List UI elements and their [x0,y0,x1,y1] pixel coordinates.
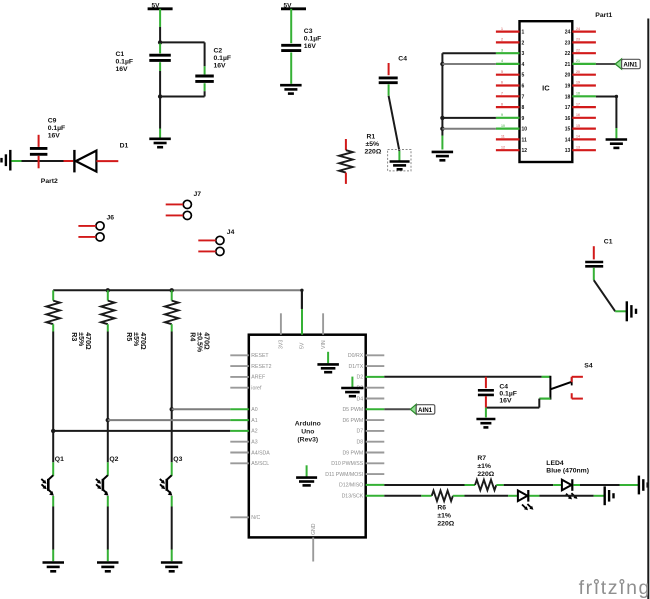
svg-text:6: 6 [501,81,503,85]
svg-text:8: 8 [501,102,503,106]
svg-text:(Rev3): (Rev3) [297,437,318,444]
svg-text:N/C: N/C [251,515,260,521]
svg-text:16V: 16V [499,398,512,405]
svg-text:11: 11 [501,135,505,139]
wire [465,495,509,497]
svg-text:23: 23 [565,40,571,46]
net label AIN1 [615,59,640,69]
ground [476,419,495,427]
svg-text:±1%: ±1% [437,512,451,519]
svg-text:2: 2 [522,40,525,46]
svg-text:RESET: RESET [251,353,269,359]
net label AIN1 [410,404,435,414]
wire [52,496,54,561]
svg-text:D11 PWM/MOSI: D11 PWM/MOSI [325,472,363,478]
resistor R1 [339,134,382,184]
selection box [388,150,411,171]
svg-text:C1: C1 [604,238,613,245]
capacitor C4 [379,56,408,96]
wire [159,97,161,138]
resistor R3 [46,290,91,350]
wire [160,91,205,96]
ground [317,352,339,372]
wire [596,95,618,139]
wire [172,408,231,410]
wire [504,484,554,486]
svg-text:Uno: Uno [301,429,314,436]
svg-text:±5%: ±5% [366,141,380,148]
svg-text:R4: R4 [189,332,196,341]
node junction [170,288,174,292]
svg-text:A2: A2 [251,429,257,435]
wire [171,496,173,561]
svg-text:0.1µF: 0.1µF [499,391,517,398]
frame edge [647,19,649,599]
svg-text:0.1µF: 0.1µF [304,36,322,43]
svg-text:R1: R1 [367,134,376,141]
svg-text:Part1: Part1 [595,12,612,19]
svg-text:5: 5 [501,70,503,74]
node junction [440,127,444,131]
wire [596,63,615,65]
svg-text:Blue (470nm): Blue (470nm) [546,468,589,475]
svg-text:R3: R3 [70,332,77,341]
svg-text:±5%: ±5% [132,332,139,347]
svg-text:D10 PWM/SS: D10 PWM/SS [331,461,364,467]
svg-text:Q2: Q2 [109,456,118,463]
svg-text:VIN: VIN [321,340,327,349]
pin VIN [321,313,327,349]
svg-text:D9 PWM: D9 PWM [342,450,363,456]
wire [53,430,230,432]
wire [171,332,173,410]
node junction [158,40,162,44]
svg-text:R7: R7 [477,455,486,462]
svg-text:0.1µF: 0.1µF [116,59,134,66]
svg-text:13: 13 [576,145,580,149]
svg-text:8: 8 [522,105,525,111]
svg-text:6: 6 [522,84,525,90]
wire [442,63,496,65]
ground [390,151,410,169]
ground [627,301,636,321]
svg-text:A3: A3 [251,440,257,446]
LED LED5 [508,490,539,510]
svg-text:17: 17 [576,102,580,106]
svg-text:D8: D8 [357,440,364,446]
wire [384,376,541,378]
svg-text:16V: 16V [116,66,129,73]
LED LED4 [546,460,589,500]
svg-text:S4: S4 [584,363,593,370]
svg-text:21: 21 [565,62,571,68]
svg-text:24: 24 [565,30,571,36]
svg-text:220Ω: 220Ω [437,520,454,527]
svg-text:AIN1: AIN1 [623,62,638,69]
wire [107,332,109,421]
svg-text:1: 1 [501,27,503,31]
node junction [440,116,444,120]
ground [606,140,628,148]
svg-text:5V: 5V [300,342,306,349]
IC U1 body [520,12,613,162]
wire [389,96,400,151]
svg-text:IC: IC [542,84,550,93]
node junction [51,429,55,433]
wire [486,399,539,408]
svg-text:16: 16 [565,116,571,122]
svg-text:14: 14 [576,135,580,139]
svg-text:LED4: LED4 [546,460,564,467]
svg-text:R5: R5 [125,332,132,341]
svg-text:A0: A0 [251,407,257,413]
Arduino title [295,421,321,444]
svg-text:7: 7 [501,92,503,96]
resistor R6 [421,491,464,528]
svg-text:frıtzıng: frıtzıng [579,577,650,599]
wire [580,484,639,486]
svg-text:22: 22 [576,48,580,52]
wire [159,9,161,43]
svg-text:24: 24 [576,27,580,31]
svg-text:C3: C3 [304,28,313,35]
svg-text:C4: C4 [398,56,407,63]
svg-text:J4: J4 [227,229,235,236]
capacitor C2 [195,47,231,91]
svg-text:D2: D2 [357,375,364,381]
Arduino right pins [325,353,384,499]
svg-text:C9: C9 [48,117,57,124]
svg-text:470Ω: 470Ω [139,332,146,350]
svg-text:16: 16 [576,113,580,117]
svg-text:C1: C1 [116,51,125,58]
svg-text:RESET2: RESET2 [251,364,271,370]
svg-text:4: 4 [522,62,525,68]
diode D1 [64,142,129,172]
pin GND [311,523,317,561]
connector J4 [198,229,234,255]
svg-text:D12/MISO: D12/MISO [339,483,363,489]
svg-text:18: 18 [576,92,580,96]
ground [43,563,65,572]
svg-text:5V: 5V [284,3,293,10]
svg-text:D1/TX: D1/TX [348,364,363,370]
svg-text:D4: D4 [357,396,364,402]
svg-text:10: 10 [522,127,528,133]
svg-text:D5 PWM: D5 PWM [342,407,363,413]
svg-text:10: 10 [501,124,505,128]
svg-text:C2: C2 [214,47,223,54]
transistor Q3 [160,456,183,496]
svg-text:D0/RX: D0/RX [348,353,364,359]
watermark fritzing [579,577,650,599]
svg-text:±1%: ±1% [477,463,491,470]
ground [605,486,614,505]
svg-text:AREF: AREF [251,375,265,381]
ground Part2 [2,150,59,185]
pin 3V3 [279,313,285,349]
svg-text:12: 12 [522,148,528,154]
wire [171,409,173,476]
ground [97,563,119,572]
wire [160,42,205,66]
svg-text:15: 15 [576,124,580,128]
svg-text:220Ω: 220Ω [365,149,382,156]
svg-text:2: 2 [501,38,503,42]
svg-text:17: 17 [565,105,571,111]
transistor Q1 [41,456,64,496]
svg-text:GND: GND [311,523,317,535]
svg-text:5: 5 [522,73,525,79]
svg-text:18: 18 [565,94,571,100]
svg-text:12: 12 [501,145,505,149]
wire [384,495,421,497]
connector J7 [166,191,202,219]
IC U1 pins [496,27,596,154]
svg-text:5V: 5V [152,3,161,10]
node junction [170,407,174,411]
wire [442,128,496,130]
resistor R5 [101,290,146,350]
svg-text:J6: J6 [107,214,115,221]
power 5V supply P2 [281,3,306,10]
wire [485,408,487,418]
svg-text:470Ω: 470Ω [84,332,91,350]
wire bendpoint [300,289,303,309]
svg-text:23: 23 [576,38,580,42]
svg-text:D1: D1 [120,142,129,149]
wire [52,332,54,431]
svg-text:15: 15 [565,127,571,133]
wire [442,52,496,54]
capacitor C4 [478,377,517,408]
svg-text:R6: R6 [437,504,446,511]
svg-text:22: 22 [565,51,571,57]
ground [149,139,171,147]
svg-text:14: 14 [565,137,571,143]
svg-text:4: 4 [501,59,503,63]
resistor R4 [165,290,210,353]
svg-text:0.1µF: 0.1µF [48,125,66,132]
svg-text:16V: 16V [214,62,227,69]
switch S4 [539,363,593,400]
connector J6 [78,214,114,241]
svg-text:470Ω: 470Ω [203,332,210,350]
ground [161,563,183,572]
node junction [106,418,110,422]
svg-text:D6 PWM: D6 PWM [342,418,363,424]
wire [384,408,410,410]
svg-text:3: 3 [522,51,525,57]
node junction [158,94,162,98]
Arduino Uno U2 body [249,335,366,538]
wire [53,289,302,291]
svg-text:13: 13 [565,148,571,154]
wire [301,290,303,309]
wire [539,495,604,497]
svg-text:19: 19 [576,81,580,85]
node junction [440,62,444,66]
svg-text:A4/SDA: A4/SDA [251,450,270,456]
wire [107,420,109,476]
ground [341,377,363,397]
svg-text:A1: A1 [251,418,257,424]
capacitor C1 [585,238,613,280]
svg-text:±0.5%: ±0.5% [196,332,203,353]
capacitor C3 [281,9,321,84]
capacitor C1 [116,44,171,74]
wire [594,280,627,311]
svg-text:20: 20 [576,70,580,74]
wire [441,53,443,149]
svg-text:220Ω: 220Ω [477,471,494,478]
svg-text:±5%: ±5% [77,332,84,347]
capacitor C9 [30,117,65,168]
svg-text:Arduino: Arduino [295,421,321,428]
svg-text:16V: 16V [48,132,61,139]
svg-text:Q1: Q1 [55,456,64,463]
svg-text:C4: C4 [499,384,508,391]
svg-text:D13/SCK: D13/SCK [342,494,364,500]
svg-text:11: 11 [522,137,528,143]
svg-text:1: 1 [522,30,525,36]
wire [159,71,161,97]
Arduino left pins [230,353,271,521]
svg-text:Part2: Part2 [41,178,58,185]
svg-text:21: 21 [576,59,580,63]
svg-text:16V: 16V [304,43,317,50]
wire [384,484,464,486]
ground [280,85,302,93]
transistor Q2 [96,456,119,496]
ground [432,152,454,160]
svg-text:J7: J7 [194,191,202,198]
resistor R7 [465,455,504,490]
svg-text:Q3: Q3 [173,456,182,463]
ground [639,476,648,495]
wire [442,117,496,119]
svg-text:9: 9 [501,113,503,117]
power 5V supply P1 [148,3,173,10]
wire [107,496,109,561]
svg-text:3V3: 3V3 [279,340,285,349]
svg-text:19: 19 [565,84,571,90]
wire [11,160,63,162]
svg-text:D7: D7 [357,429,364,435]
pin 5V [300,309,306,349]
svg-text:9: 9 [522,116,525,122]
svg-text:20: 20 [565,73,571,79]
svg-text:A5/SCL: A5/SCL [251,461,269,467]
node junction [106,288,110,292]
svg-text:3: 3 [501,48,503,52]
ground [296,465,317,485]
svg-text:0.1µF: 0.1µF [214,55,232,62]
wire [108,419,231,421]
svg-text:AIN1: AIN1 [418,407,433,414]
svg-text:ioref: ioref [251,386,262,392]
svg-text:7: 7 [522,94,525,100]
wire [52,431,54,476]
